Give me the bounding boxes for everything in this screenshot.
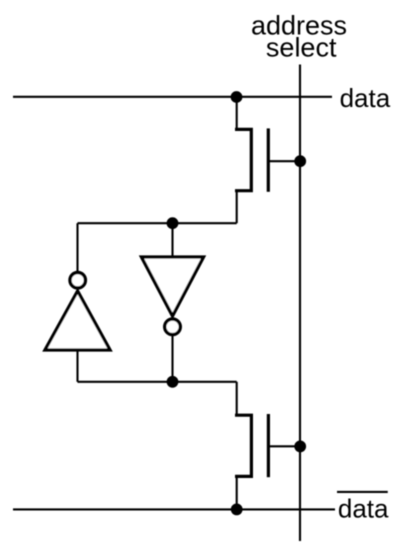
wire: inverter U1 input from node B bbox=[76, 350, 78, 382]
transistor Q1 (top pass transistor) channel with source/drain stubs bbox=[235, 129, 251, 190]
wire: node A down to inverter U2 input bbox=[171, 223, 173, 257]
svg-text:data: data bbox=[340, 83, 391, 113]
inverter U2 output bubble bbox=[165, 319, 181, 335]
transistor Q1 gate bar bbox=[267, 128, 270, 191]
transistor Q2 gate bar bbox=[267, 414, 270, 477]
label "data" overline (bottom) bbox=[337, 491, 388, 493]
inverter U2 (right, pointing down) bbox=[142, 257, 204, 316]
inverter U1 output bubble bbox=[70, 273, 85, 288]
wire: node A down to inverter U1 output bubble bbox=[76, 223, 78, 272]
svg-text:data: data bbox=[338, 493, 389, 523]
inverter U1 (left, pointing up) bbox=[45, 291, 110, 350]
wire: data-bar bit line (bottom horizontal) bbox=[13, 508, 335, 510]
wire: data bit line (top horizontal) bbox=[13, 96, 332, 98]
node: junction dot node A bbox=[167, 217, 179, 229]
transistor Q2 (bottom pass transistor) channel with source/drain stubs bbox=[235, 415, 251, 476]
node: junction dot Q1 gate / address select bbox=[294, 155, 306, 167]
wire: Q1 gate to address select line bbox=[268, 160, 300, 162]
svg-text:select: select bbox=[266, 32, 337, 62]
wire: address select vertical line bbox=[299, 65, 301, 542]
wire: node B up to Q2 drain stub bbox=[236, 382, 238, 416]
node: junction dot data line / Q1 drain bbox=[231, 91, 243, 103]
wire: node A horizontal bbox=[78, 222, 237, 224]
wire: node B horizontal bbox=[78, 381, 237, 383]
node: junction dot node B bbox=[167, 376, 179, 388]
wire: Q2 gate to address select line bbox=[268, 445, 300, 447]
wire: Q1 source down to node A bbox=[236, 191, 238, 224]
node: junction dot Q2 gate / address select bbox=[294, 441, 306, 453]
node: junction dot data-bar line / Q2 source bbox=[231, 504, 243, 516]
wire: data line dot down to Q1 drain stub bbox=[236, 97, 238, 131]
wire: Q2 source down to data-bar line bbox=[236, 476, 238, 509]
wire: inverter U2 bubble down to node B bbox=[171, 336, 173, 382]
label "address select" bbox=[251, 11, 347, 63]
